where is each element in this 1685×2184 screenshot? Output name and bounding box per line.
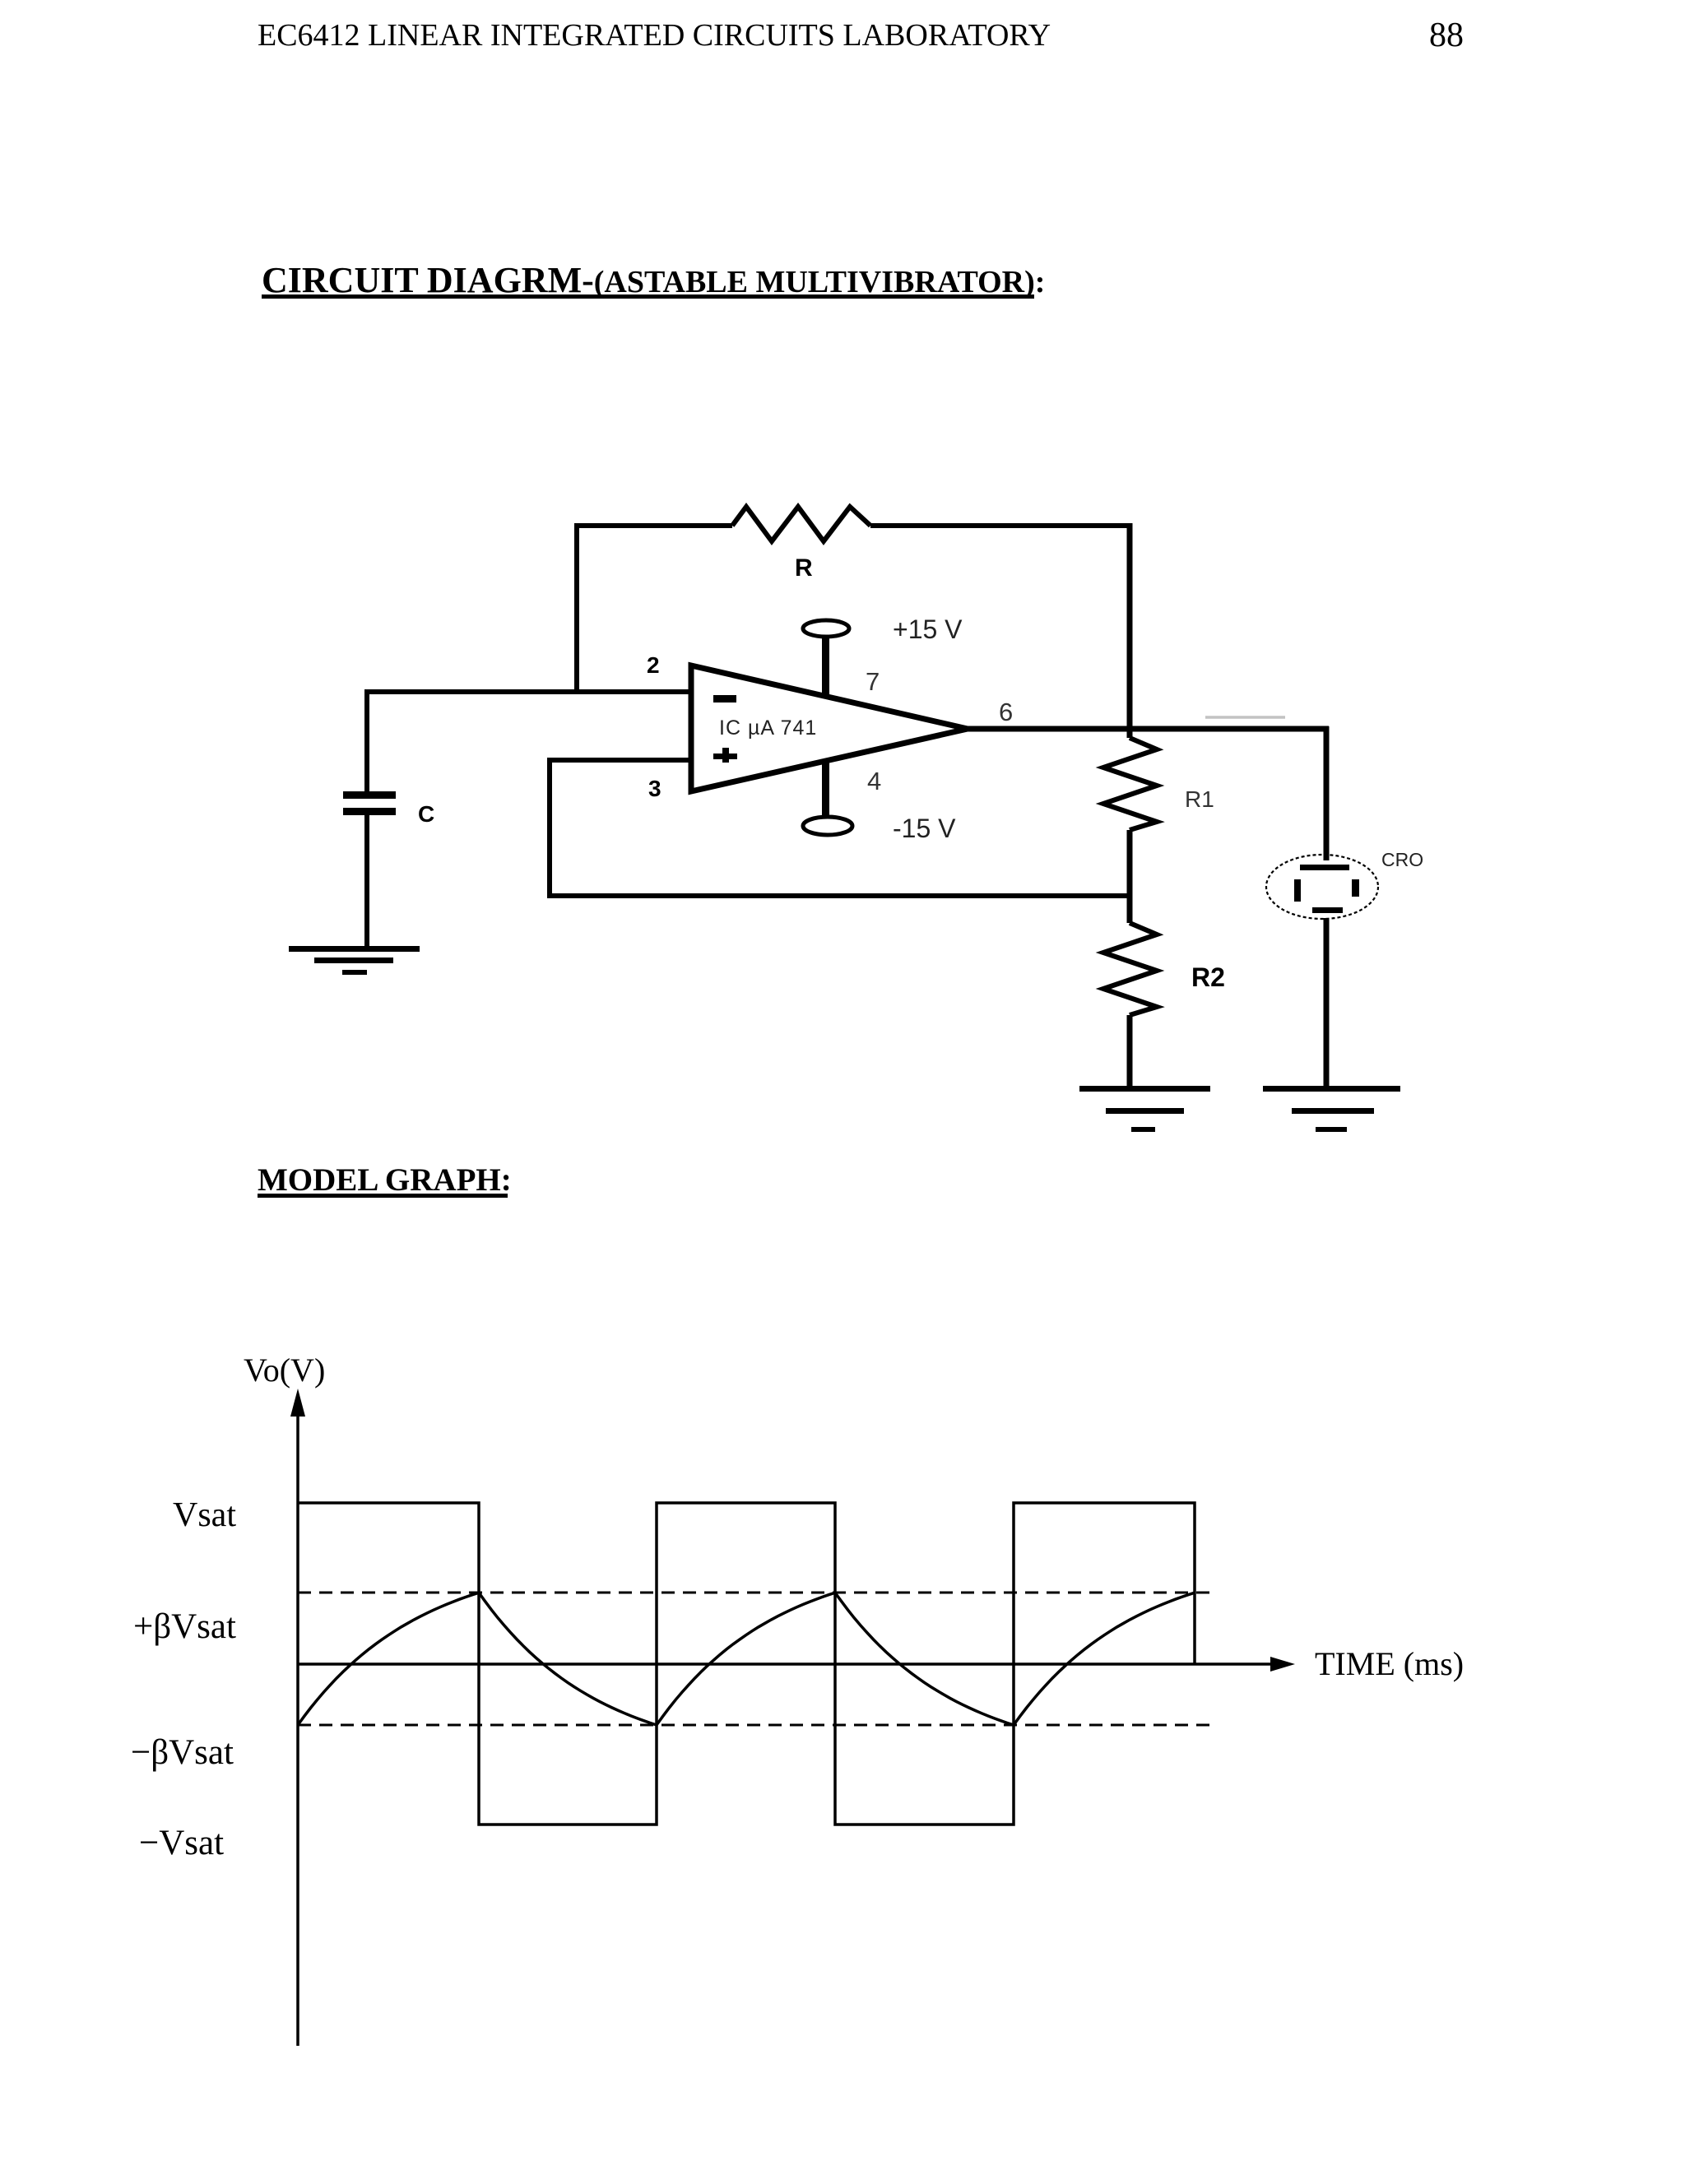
wire: output (pin 6) xyxy=(968,726,1329,732)
pin label 4 xyxy=(867,767,881,795)
op-amp minus sign xyxy=(713,695,736,702)
value label R2 xyxy=(1191,962,1225,992)
value label R xyxy=(795,554,813,582)
svg-text:R2: R2 xyxy=(1191,962,1225,992)
svg-text:3: 3 xyxy=(648,776,661,801)
wire: inverting input (pin 2) xyxy=(364,689,691,694)
resistor R1 xyxy=(1103,738,1157,830)
pin label 3 xyxy=(648,776,661,801)
svg-text:MODEL GRAPH:: MODEL GRAPH: xyxy=(258,1162,512,1198)
ground (below R2) xyxy=(1079,1086,1210,1132)
svg-text:TIME (ms): TIME (ms) xyxy=(1315,1645,1464,1682)
svg-text:2: 2 xyxy=(647,652,660,678)
wire: CRO to ground xyxy=(1324,918,1330,1090)
wire: right feedback column upper xyxy=(1127,523,1133,738)
level label +bVsat xyxy=(133,1607,236,1646)
wire: pin3 loop vertical xyxy=(547,758,552,898)
wire: top feedback right segment xyxy=(870,523,1132,528)
wire: pin 7 supply lead xyxy=(822,636,829,698)
-15V supply terminal xyxy=(803,817,852,835)
wire: bottom loop horizontal xyxy=(550,893,1132,898)
op-amp U1 triangle xyxy=(691,665,968,791)
wire: column between R1 and R2 xyxy=(1127,830,1133,923)
svg-text:R1: R1 xyxy=(1185,786,1214,812)
svg-text:Vsat: Vsat xyxy=(173,1496,236,1534)
value label R1 xyxy=(1185,786,1214,812)
svg-text:EC6412 LINEAR INTEGRATED CIRCU: EC6412 LINEAR INTEGRATED CIRCUITS LABORA… xyxy=(258,18,1051,53)
ground (below CRO) xyxy=(1263,1086,1400,1132)
pin label 2 xyxy=(647,652,660,678)
dashed level +bVsat xyxy=(298,1592,1215,1594)
resistor R2 xyxy=(1103,923,1157,1015)
label +15 V xyxy=(893,614,963,644)
svg-text:R: R xyxy=(795,554,813,582)
value label C xyxy=(418,801,434,827)
wire: capacitor top lead xyxy=(364,689,369,792)
label CRO xyxy=(1381,849,1423,870)
level label -Vsat xyxy=(139,1824,224,1862)
wire: R2 to ground xyxy=(1127,1015,1133,1090)
wire: left feedback vertical xyxy=(574,523,579,694)
svg-text:7: 7 xyxy=(866,667,880,696)
svg-text:CRO: CRO xyxy=(1381,849,1423,870)
wire: scan artifact above output xyxy=(1205,716,1285,719)
svg-text:+βVsat: +βVsat xyxy=(133,1607,236,1646)
svg-text:−Vsat: −Vsat xyxy=(139,1824,224,1862)
svg-text:88: 88 xyxy=(1429,16,1464,54)
ground (below capacitor) xyxy=(289,946,420,975)
svg-text:C: C xyxy=(418,801,434,827)
svg-text:-15 V: -15 V xyxy=(893,814,956,843)
svg-text:CIRCUIT DIAGRM-(ASTABLE MULTIV: CIRCUIT DIAGRM-(ASTABLE MULTIVIBRATOR): xyxy=(262,260,1045,300)
svg-text:IC µA 741: IC µA 741 xyxy=(719,716,817,740)
pin label 6 xyxy=(999,698,1013,726)
wire: capacitor bottom lead xyxy=(364,814,369,950)
svg-text:4: 4 xyxy=(867,767,881,795)
capacitor C xyxy=(343,791,396,815)
wire: pin 4 supply lead xyxy=(822,760,829,818)
section title CIRCUIT DIAGRM-(ASTABLE MULTIVIBRATOR): xyxy=(262,260,1045,300)
wire: top feedback left segment xyxy=(577,523,732,528)
+15V supply terminal xyxy=(803,620,849,637)
label -15 V xyxy=(893,814,956,843)
square wave output Vo xyxy=(298,1503,1195,1825)
axis label Vo(V) xyxy=(244,1352,325,1389)
wire: non-inverting input (pin 3) xyxy=(547,758,691,763)
svg-text:Vo(V): Vo(V) xyxy=(244,1352,325,1389)
capacitor voltage waveform xyxy=(298,1593,1195,1725)
resistor R (feedback zigzag) xyxy=(732,507,870,541)
svg-text:−βVsat: −βVsat xyxy=(131,1733,234,1772)
page number 88 xyxy=(1429,16,1464,54)
Y axis xyxy=(290,1389,305,2046)
pin label 7 xyxy=(866,667,880,696)
level label -bVsat xyxy=(131,1733,234,1772)
op-amp label IC uA 741 xyxy=(719,716,817,740)
section title MODEL GRAPH: xyxy=(258,1162,512,1198)
axis label TIME (ms) xyxy=(1315,1645,1464,1682)
wire: output corner down to CRO xyxy=(1324,726,1330,860)
svg-text:6: 6 xyxy=(999,698,1013,726)
svg-text:+15 V: +15 V xyxy=(893,614,963,644)
dashed level -bVsat xyxy=(298,1724,1215,1727)
X axis xyxy=(298,1657,1295,1672)
CRO oscilloscope symbol xyxy=(1266,855,1378,919)
level label Vsat xyxy=(173,1496,236,1534)
header text xyxy=(258,18,1051,53)
op-amp plus sign xyxy=(713,748,737,763)
